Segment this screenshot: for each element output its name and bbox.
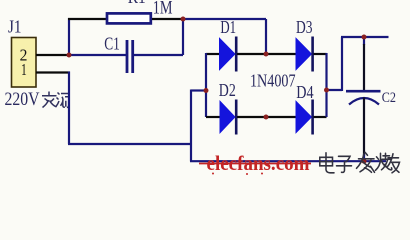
diode D1	[220, 37, 237, 72]
wire A up	[68, 18, 70, 56]
hanzi liu	[56, 93, 70, 108]
junction A	[67, 53, 72, 58]
capacitor C1	[127, 40, 133, 73]
svg-text:J1: J1	[8, 17, 22, 37]
junction D	[204, 88, 209, 93]
hanzi shao	[376, 153, 392, 170]
wire pin2 stub	[36, 54, 68, 56]
wire B to bridge top	[183, 18, 266, 20]
svg-text:1M: 1M	[153, 0, 173, 19]
svg-text:D2: D2	[219, 80, 236, 100]
junction B	[181, 17, 186, 22]
wire top output rail	[341, 36, 389, 38]
wire pin1 stub	[36, 71, 70, 73]
wire D1 to C to D3	[237, 53, 296, 55]
wire D3 cathode stub	[314, 53, 327, 55]
wire D2 anode lead	[206, 116, 220, 118]
wire D1 anode down	[205, 53, 207, 117]
junction F	[324, 88, 329, 93]
watermark hanzi dian-zi-fa-shao-you	[320, 152, 400, 173]
svg-text:D4: D4	[296, 82, 314, 102]
hanzi fa	[357, 152, 375, 172]
diode D4	[296, 100, 313, 135]
wire top to R1	[68, 18, 107, 20]
wire F riser	[341, 37, 343, 91]
junction C	[264, 52, 269, 57]
svg-text:R1: R1	[128, 0, 146, 7]
wire down to C	[265, 19, 267, 54]
hanzi dian	[320, 153, 334, 173]
wire C1 to riser	[134, 54, 183, 56]
junction G	[362, 35, 367, 40]
diode D3	[296, 37, 313, 72]
svg-text:220V: 220V	[5, 89, 40, 110]
hanzi you	[387, 154, 400, 173]
junction E	[264, 115, 269, 120]
svg-text:1N4007: 1N4007	[250, 71, 296, 91]
wire pin1 down	[68, 72, 70, 145]
wire F right	[326, 89, 343, 91]
svg-text:D3: D3	[296, 17, 313, 37]
svg-text:D1: D1	[220, 17, 236, 37]
svg-text:C1: C1	[104, 34, 120, 54]
connector J1	[12, 38, 37, 88]
label 220V AC	[5, 89, 70, 110]
wire C2 down	[363, 98, 365, 157]
diode D2	[220, 100, 236, 135]
wire D4 cathode stub	[314, 116, 327, 118]
watermark elecfans.com	[199, 151, 311, 175]
wire bottom output rail	[190, 160, 386, 162]
svg-text:C2: C2	[382, 90, 396, 106]
wire riser to B	[182, 19, 184, 55]
svg-text:elecfans.com: elecfans.com	[207, 151, 310, 175]
wire bottom left rail	[68, 143, 191, 145]
junction H	[362, 159, 367, 164]
resistor R1	[107, 13, 151, 23]
hanzi jiao	[42, 92, 57, 108]
hanzi zi	[337, 156, 352, 172]
wire D2 to E to D4	[237, 116, 296, 118]
wire left bridge down	[190, 90, 192, 162]
wire D node left	[191, 89, 206, 91]
svg-text:1: 1	[21, 60, 27, 79]
wire R1 to B	[152, 18, 182, 20]
wire A to C1	[68, 54, 126, 56]
wire D1 anode lead	[206, 53, 220, 55]
capacitor C2	[346, 91, 381, 104]
wire right bridge vertical	[325, 53, 327, 117]
wire G down to C2	[363, 37, 365, 45]
